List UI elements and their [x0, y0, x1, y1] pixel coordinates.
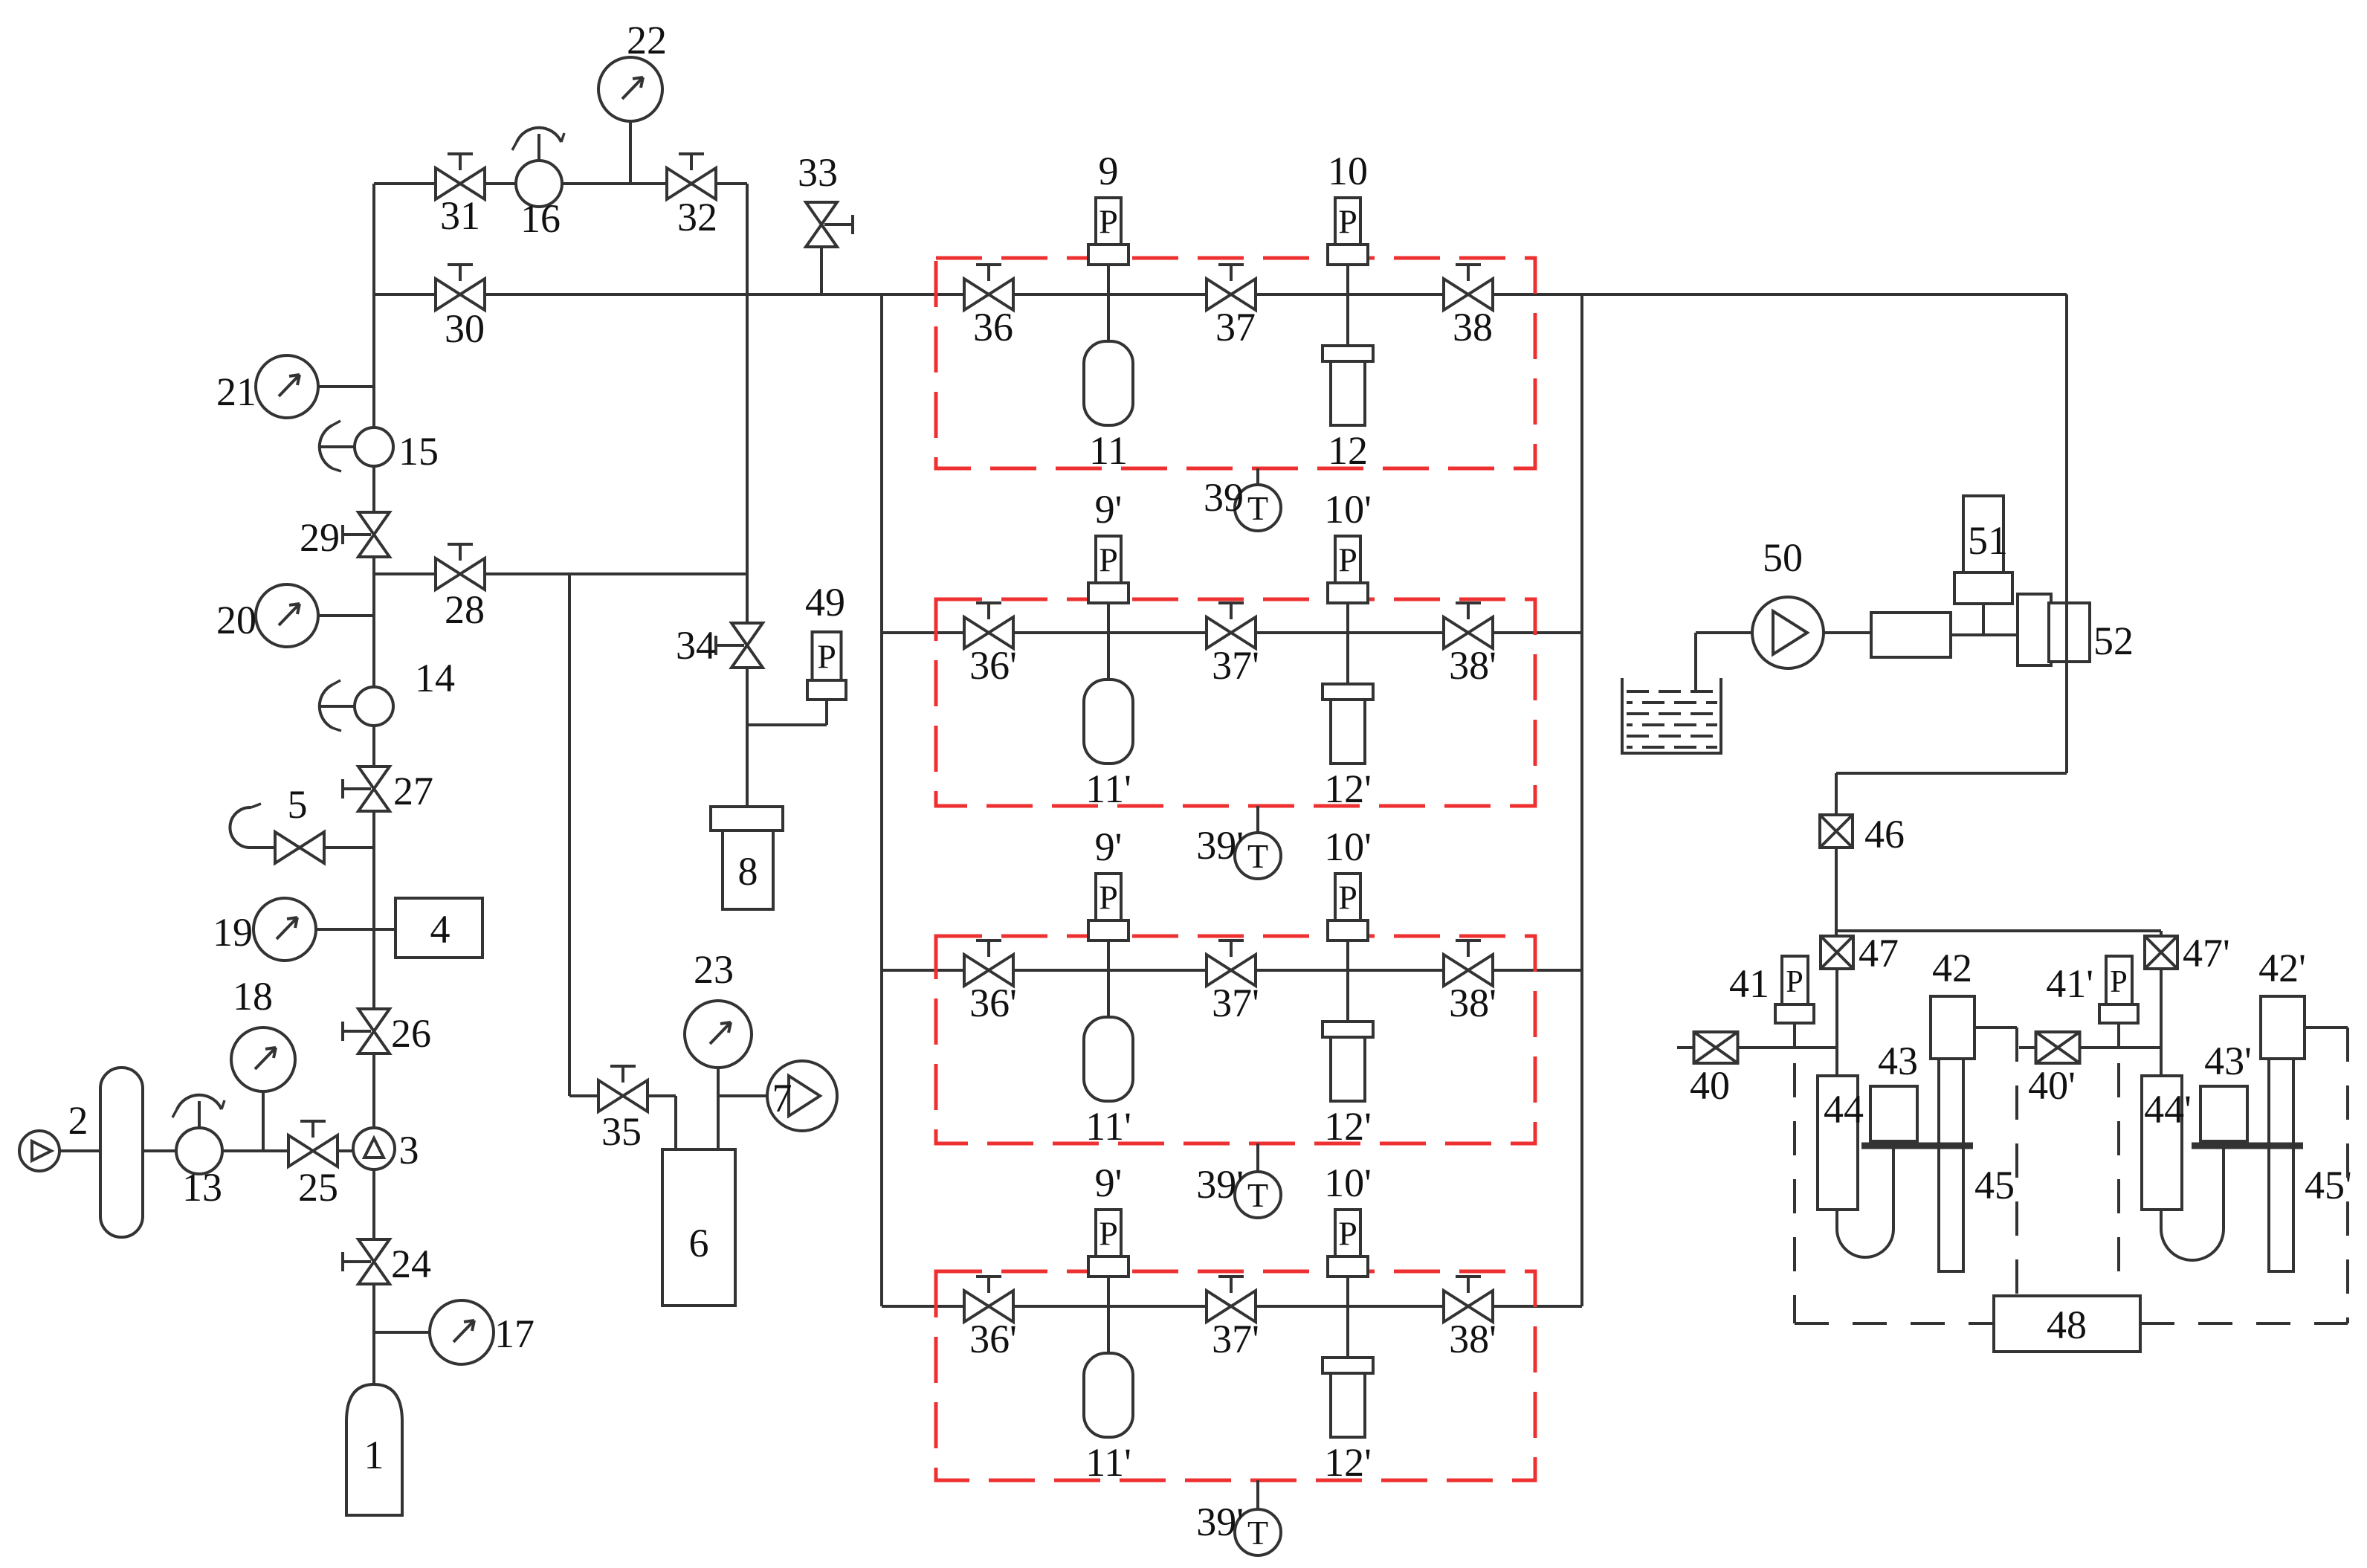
injector 52 right	[2049, 603, 2090, 662]
wire sensor9 stem row1	[1107, 265, 1110, 341]
svg-text:31: 31	[440, 193, 480, 238]
tube 45	[1939, 1059, 1963, 1271]
valve 25	[288, 1135, 338, 1167]
svg-text:12': 12'	[1324, 1104, 1372, 1149]
svg-text:9': 9'	[1095, 825, 1123, 869]
hand valve 13	[198, 1101, 201, 1128]
wire 42 outlet	[1974, 1026, 2017, 1029]
tank 6	[662, 1149, 735, 1306]
valve 36' row2	[964, 617, 1013, 648]
pressure sensor 9' row4	[1096, 1210, 1121, 1256]
wire sensor9' stem row4	[1107, 1277, 1110, 1353]
wire 41' stem	[2117, 1022, 2120, 1048]
svg-text:24: 24	[391, 1242, 431, 1286]
svg-text:10': 10'	[1324, 487, 1372, 532]
svg-text:38': 38'	[1449, 981, 1496, 1025]
pump 2	[19, 1131, 59, 1171]
wire 47' to 44'	[2160, 969, 2163, 1076]
wire right header through 52	[2065, 603, 2068, 773]
svg-text:39': 39'	[1196, 823, 1244, 868]
vessel 43	[1870, 1086, 1917, 1141]
accumulator 11 row1	[1084, 341, 1133, 425]
svg-text:49: 49	[805, 580, 845, 625]
water tank	[1622, 678, 1721, 753]
wire main left vertical line	[372, 184, 375, 1387]
svg-text:22: 22	[627, 18, 667, 62]
cylinder 12' body row3	[1331, 1037, 1365, 1101]
wire valve 5 branch	[248, 846, 374, 849]
wire top header line	[374, 182, 747, 185]
svg-text:46: 46	[1864, 812, 1905, 856]
wire 51 stem	[1982, 604, 1985, 635]
valve 40'	[2036, 1032, 2080, 1063]
filter 8 body	[723, 830, 773, 909]
dashed link 42 down	[2015, 1027, 2018, 1296]
wire 25 to pump 3	[338, 1149, 353, 1152]
svg-text:20: 20	[216, 598, 256, 642]
pressure sensor 10' row3	[1335, 874, 1360, 920]
svg-text:T: T	[1247, 1514, 1268, 1552]
svg-text:1: 1	[364, 1433, 384, 1477]
svg-text:47': 47'	[2183, 931, 2230, 975]
svg-text:41': 41'	[2046, 961, 2093, 1006]
box 4	[395, 898, 482, 958]
svg-text:P: P	[1099, 203, 1118, 241]
svg-text:32: 32	[677, 195, 717, 239]
wire row4 line	[882, 1305, 1582, 1308]
valve 26	[358, 1009, 390, 1054]
tube 45'	[2269, 1059, 2293, 1271]
accumulator 11' row3	[1084, 1017, 1133, 1101]
filter 8 cap	[711, 807, 783, 830]
valve 34	[732, 623, 763, 668]
svg-text:3: 3	[399, 1128, 419, 1172]
wire sensor10' stem row3	[1346, 941, 1349, 1022]
temperature sensor 39' row3	[1235, 1172, 1281, 1218]
svg-text:15: 15	[398, 429, 439, 474]
accumulator 11' row2	[1084, 680, 1133, 764]
svg-text:P: P	[1338, 879, 1357, 917]
svg-text:42: 42	[1932, 946, 1972, 990]
gauge 19	[254, 898, 316, 961]
valve 32	[667, 168, 716, 199]
svg-text:11: 11	[1089, 428, 1128, 473]
svg-text:P: P	[817, 638, 836, 676]
wire down to valve 46	[1835, 773, 1838, 815]
svg-text:41: 41	[1729, 961, 1769, 1006]
wire middle left bus	[880, 294, 883, 1306]
plate under 43	[1861, 1143, 1973, 1149]
wire gauge 17 branch	[374, 1331, 430, 1334]
wire 49 branch	[747, 723, 827, 726]
vessel 42'	[2261, 996, 2305, 1059]
svg-text:36': 36'	[969, 643, 1017, 688]
svg-text:10: 10	[1328, 149, 1368, 193]
wire 52 to 46 horizontal	[1836, 772, 2067, 775]
hand valve 15	[320, 445, 355, 448]
temperature sensor 39 row1	[1235, 485, 1281, 531]
svg-text:10': 10'	[1324, 825, 1372, 869]
svg-text:36: 36	[973, 305, 1013, 349]
valve 37' row3	[1207, 955, 1256, 986]
svg-text:11': 11'	[1085, 767, 1131, 811]
svg-text:37: 37	[1215, 305, 1256, 349]
wire temp sensor 39' stem row3	[1256, 1143, 1259, 1172]
valve 35	[598, 1080, 648, 1112]
valve 38' row3	[1444, 955, 1493, 986]
svg-text:14: 14	[415, 656, 455, 700]
svg-text:9: 9	[1099, 149, 1119, 193]
dashed enclosure left '	[2117, 1063, 2120, 1296]
cylinder 1	[346, 1384, 402, 1515]
dashed enclosure bottom B	[2140, 1322, 2348, 1325]
valve 31	[436, 168, 485, 199]
wire vent header line	[374, 293, 2067, 296]
column 44	[1818, 1076, 1858, 1210]
wire 23-7 line	[718, 1094, 767, 1097]
svg-text:25: 25	[298, 1165, 338, 1210]
tank 2 capsule	[100, 1068, 143, 1237]
pressure sensor 9' row2	[1096, 536, 1121, 583]
wire temp sensor 39 stem row1	[1256, 468, 1259, 485]
wire row2 line	[882, 631, 1582, 634]
sensor 51 base	[1954, 572, 2012, 604]
vessel 43'	[2200, 1086, 2247, 1141]
svg-text:12': 12'	[1324, 1440, 1372, 1485]
svg-text:P: P	[1338, 541, 1357, 579]
valve 38 row1	[1444, 279, 1493, 310]
red dashed module box row2	[936, 599, 1535, 806]
svg-text:8: 8	[738, 849, 758, 894]
gauge 23	[685, 1001, 752, 1068]
wire gauge 19 line to box 4	[316, 928, 395, 931]
cylinder 12' cap row2	[1323, 684, 1373, 700]
wire gauge23 stem	[717, 1068, 720, 1149]
wire tank2 to 13	[143, 1149, 178, 1152]
wire valve 33 stub	[820, 244, 823, 294]
svg-text:T: T	[1247, 489, 1268, 527]
wire pump2-tank2 line	[59, 1149, 100, 1152]
dashed link 42' down	[2346, 1027, 2349, 1323]
controller 48	[1994, 1296, 2140, 1352]
svg-text:10': 10'	[1324, 1161, 1372, 1205]
valve 24	[358, 1239, 390, 1284]
svg-text:11': 11'	[1085, 1440, 1131, 1485]
svg-text:28: 28	[445, 587, 485, 632]
valve 37' row2	[1207, 617, 1256, 648]
svg-text:11': 11'	[1085, 1104, 1131, 1149]
wire cross line to 47prime	[1836, 929, 2161, 932]
valve 40	[1694, 1032, 1738, 1063]
svg-text:30: 30	[445, 306, 485, 351]
column 44'	[2142, 1076, 2182, 1210]
hand valve 16	[537, 134, 540, 161]
svg-text:P: P	[1338, 203, 1357, 241]
wire sensor10 stem row1	[1346, 265, 1349, 346]
red dashed module box row1	[936, 258, 1535, 468]
damper box	[1871, 613, 1951, 657]
wire sensor9' stem row2	[1107, 603, 1110, 680]
svg-text:38: 38	[1453, 305, 1493, 349]
gauge 21	[256, 355, 318, 418]
valve 47	[1821, 936, 1853, 969]
svg-text:T: T	[1247, 837, 1268, 875]
red dashed module box row4	[936, 1271, 1535, 1480]
wire 42' outlet	[2305, 1026, 2348, 1029]
sensor 51 body	[1963, 496, 2003, 574]
svg-text:P: P	[1099, 1215, 1118, 1253]
svg-text:18: 18	[233, 974, 273, 1019]
valve 29	[358, 512, 390, 557]
valve 36 row1	[964, 279, 1013, 310]
wire 40 to 47 line	[1738, 1046, 1837, 1049]
svg-text:45: 45	[1974, 1163, 2015, 1207]
pressure sensor 49	[813, 632, 842, 680]
gauge 17	[430, 1300, 494, 1364]
valve 5	[275, 832, 324, 863]
svg-text:26: 26	[391, 1011, 431, 1056]
svg-text:37': 37'	[1212, 643, 1259, 688]
svg-text:52: 52	[2093, 619, 2134, 663]
svg-text:40: 40	[1690, 1063, 1730, 1108]
svg-text:9': 9'	[1095, 487, 1123, 532]
hand valve 14	[320, 705, 355, 708]
cylinder 12' cap row4	[1323, 1358, 1373, 1373]
valve 28	[436, 558, 485, 590]
U-tube 44'-43'	[2161, 1149, 2224, 1260]
valve 36' row4	[964, 1291, 1013, 1322]
svg-text:7: 7	[772, 1076, 792, 1120]
svg-text:36': 36'	[969, 1317, 1017, 1361]
svg-text:44': 44'	[2144, 1087, 2192, 1132]
valve 37 row1	[1207, 279, 1256, 310]
cylinder 12' cap row3	[1323, 1022, 1373, 1037]
cylinder 12' body row4	[1331, 1373, 1365, 1437]
wire sensor9' stem row3	[1107, 941, 1110, 1017]
svg-text:12: 12	[1328, 428, 1368, 473]
svg-text:43: 43	[1878, 1039, 1918, 1083]
svg-text:33: 33	[798, 150, 838, 195]
valve 38' row4	[1444, 1291, 1493, 1322]
valve 46	[1820, 815, 1853, 848]
dashed enclosure bottom A	[1795, 1322, 1994, 1325]
svg-text:2: 2	[68, 1098, 88, 1143]
wire temp sensor 39' stem row2	[1256, 806, 1259, 833]
gauge 20	[256, 584, 318, 647]
svg-text:16: 16	[520, 196, 561, 241]
svg-text:P: P	[1099, 541, 1118, 579]
wire gauge 20 stem	[318, 614, 374, 617]
vessel 42	[1931, 996, 1974, 1059]
wire row3 line	[882, 969, 1582, 972]
plate under 43'	[2192, 1143, 2303, 1149]
wire 41 stem	[1793, 1022, 1796, 1048]
wire vent vertical line	[746, 184, 749, 807]
wire 46 to 47 junction	[1835, 848, 1838, 936]
wire 40 stub	[1677, 1046, 1694, 1049]
wire right header down	[2065, 294, 2068, 773]
cylinder 12' body row2	[1331, 700, 1365, 764]
svg-text:29: 29	[300, 515, 340, 560]
svg-text:39: 39	[1204, 475, 1244, 520]
svg-text:45': 45'	[2305, 1163, 2352, 1207]
svg-text:40': 40'	[2028, 1063, 2076, 1108]
svg-text:36': 36'	[969, 981, 1017, 1025]
svg-text:9': 9'	[1095, 1161, 1123, 1205]
valve 47'	[2145, 936, 2177, 969]
svg-text:19: 19	[213, 910, 253, 955]
wire valve35 to tank 6	[646, 1094, 676, 1097]
svg-text:47: 47	[1859, 931, 1899, 975]
svg-text:39': 39'	[1196, 1500, 1244, 1544]
wire sensor10' stem row4	[1346, 1277, 1349, 1358]
svg-text:27: 27	[393, 769, 433, 813]
svg-text:17: 17	[494, 1311, 535, 1356]
svg-text:38': 38'	[1449, 1317, 1496, 1361]
valve 33	[806, 202, 837, 247]
wire pump50 to damper	[1824, 631, 1871, 634]
wire 47 to 44	[1835, 969, 1838, 1076]
temperature sensor 39' row4	[1235, 1509, 1281, 1555]
dashed enclosure left A	[1793, 1063, 1796, 1323]
svg-text:51: 51	[1968, 518, 2008, 563]
svg-text:5: 5	[288, 782, 308, 827]
pump 3	[353, 1128, 395, 1169]
pressure sensor 10' row2	[1335, 536, 1360, 583]
svg-text:37': 37'	[1212, 981, 1259, 1025]
wire gauge 21 stem	[318, 385, 374, 388]
pressure sensor 41'	[2106, 956, 2132, 1004]
water hatching	[1627, 690, 1717, 693]
svg-text:39': 39'	[1196, 1162, 1244, 1207]
svg-text:4: 4	[430, 907, 451, 952]
svg-text:P: P	[2110, 965, 2127, 999]
wire middle right bus	[1580, 294, 1583, 1306]
cylinder 12 body row1	[1331, 361, 1365, 425]
wire damper to 52	[1951, 633, 2018, 636]
svg-text:P: P	[1338, 1215, 1357, 1253]
wire 40' to 47' line	[2080, 1046, 2161, 1049]
svg-text:48: 48	[2047, 1303, 2087, 1347]
wire 13 to valve 25	[222, 1149, 288, 1152]
wire gauge 18 stem	[262, 1091, 265, 1151]
temperature sensor 39' row2	[1235, 833, 1281, 879]
pump 7	[767, 1061, 837, 1131]
svg-text:35: 35	[601, 1109, 642, 1154]
svg-text:21: 21	[216, 370, 256, 414]
svg-text:P: P	[1099, 879, 1118, 917]
svg-text:42': 42'	[2258, 946, 2306, 990]
svg-text:37': 37'	[1212, 1317, 1259, 1361]
valve 27	[358, 767, 390, 811]
svg-text:12': 12'	[1324, 767, 1372, 811]
pressure sensor 10 row1	[1335, 198, 1360, 245]
svg-text:6: 6	[689, 1221, 709, 1265]
valve 36' row3	[964, 955, 1013, 986]
U-tube 44-43	[1837, 1149, 1893, 1257]
cylinder 12 cap row1	[1323, 346, 1373, 361]
wire temp sensor 39' stem row4	[1256, 1480, 1259, 1509]
svg-text:43': 43'	[2204, 1039, 2252, 1083]
wire branch to valve 35	[568, 574, 571, 1096]
svg-text:13: 13	[182, 1165, 222, 1210]
wire 40' stub	[2019, 1046, 2036, 1049]
red dashed module box row3	[936, 936, 1535, 1143]
svg-text:T: T	[1247, 1176, 1268, 1214]
accumulator 11' row4	[1084, 1353, 1133, 1437]
pressure sensor 9' row3	[1096, 874, 1121, 920]
svg-text:23: 23	[694, 947, 734, 992]
pressure sensor 9 row1	[1096, 198, 1121, 245]
pump 50	[1752, 597, 1824, 668]
wire gauge 22 stem	[629, 122, 632, 184]
valve 30	[436, 279, 485, 310]
injector 52 left	[2018, 594, 2051, 665]
valve 37' row4	[1207, 1291, 1256, 1322]
svg-text:34: 34	[676, 623, 716, 668]
wire valve-28 branch line	[374, 572, 747, 575]
gauge 22	[598, 57, 662, 121]
wire sensor10' stem row2	[1346, 603, 1349, 684]
valve 38' row2	[1444, 617, 1493, 648]
svg-text:P: P	[1786, 965, 1803, 999]
svg-text:38': 38'	[1449, 643, 1496, 688]
pressure sensor 10' row4	[1335, 1210, 1360, 1256]
wire tank suction pipe	[1694, 633, 1697, 691]
svg-text:44: 44	[1824, 1087, 1864, 1132]
pressure sensor 41	[1782, 956, 1808, 1004]
gauge 18	[231, 1027, 295, 1091]
svg-text:50: 50	[1763, 535, 1803, 580]
